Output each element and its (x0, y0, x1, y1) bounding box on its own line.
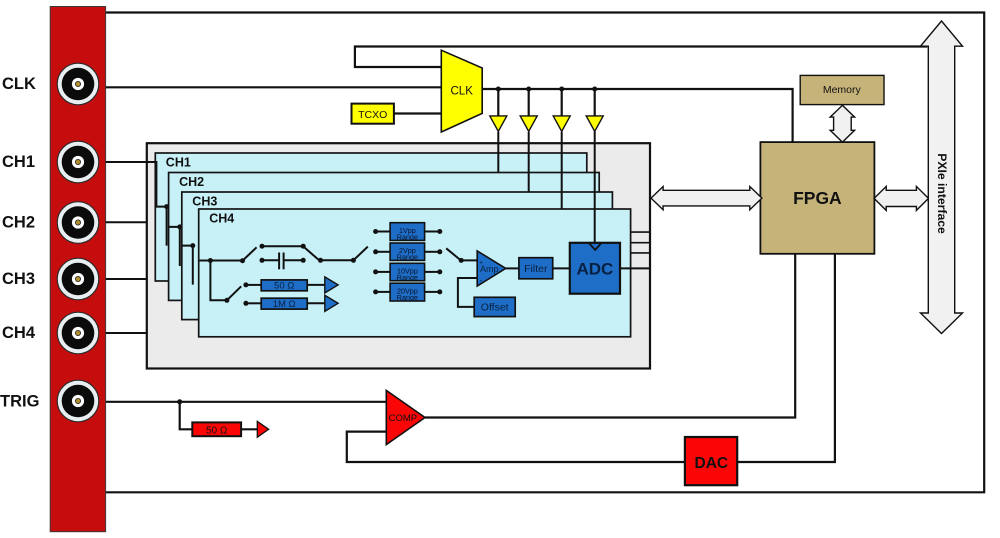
svg-text:CH3: CH3 (2, 270, 35, 288)
svg-text:CH2: CH2 (179, 175, 204, 189)
svg-text:50 Ω: 50 Ω (274, 281, 294, 292)
svg-text:Offset: Offset (481, 302, 509, 314)
svg-text:DAC: DAC (695, 455, 729, 472)
svg-text:FPGA: FPGA (793, 188, 842, 208)
svg-text:Range: Range (397, 293, 418, 302)
svg-text:Memory: Memory (823, 84, 862, 96)
svg-text:-: - (480, 276, 483, 285)
svg-text:CH3: CH3 (192, 195, 217, 209)
svg-text:TRIG: TRIG (0, 392, 39, 410)
svg-text:CH1: CH1 (2, 153, 35, 171)
svg-text:COMP: COMP (389, 413, 418, 424)
svg-text:PXIe interface: PXIe interface (935, 153, 949, 234)
svg-text:Range: Range (397, 273, 418, 282)
svg-text:ADC: ADC (576, 259, 613, 278)
svg-text:CLK: CLK (451, 86, 474, 98)
svg-text:CH4: CH4 (209, 212, 234, 226)
svg-text:CH4: CH4 (2, 324, 36, 342)
svg-text:CH2: CH2 (2, 214, 35, 232)
svg-text:50 Ω: 50 Ω (206, 425, 228, 436)
svg-text:CLK: CLK (2, 75, 36, 93)
svg-text:Range: Range (397, 233, 418, 242)
svg-text:Range: Range (397, 253, 418, 262)
svg-text:Filter: Filter (524, 263, 548, 275)
svg-text:+: + (479, 260, 483, 267)
svg-text:1M Ω: 1M Ω (273, 299, 296, 310)
svg-text:TCXO: TCXO (358, 109, 387, 121)
svg-text:CH1: CH1 (166, 156, 191, 170)
